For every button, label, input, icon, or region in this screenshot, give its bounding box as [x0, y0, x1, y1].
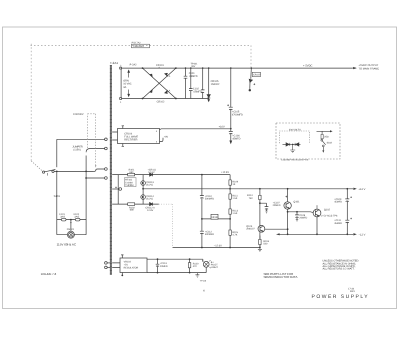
resistor R120	[189, 259, 191, 272]
svg-text:1.5K: 1.5K	[232, 212, 237, 215]
svg-text:RECTIFIER: RECTIFIER	[124, 139, 137, 142]
regulator VR101	[202, 218, 230, 220]
ground tick below fuse row	[70, 222, 72, 224]
pin pad 1	[120, 98, 122, 100]
wire VR102 bus stubs	[112, 263, 120, 268]
svg-text:+12.6V: +12.6V	[221, 171, 229, 174]
drawing frame dashed corner down	[250, 45, 252, 67]
rectifier CR104 box	[112, 126, 159, 147]
capacitor C111	[345, 220, 349, 223]
svg-text:26V: 26V	[191, 65, 196, 68]
svg-text:(115V): (115V)	[73, 149, 80, 152]
svg-text:+8V: +8V	[164, 136, 169, 139]
svg-text:750: 750	[249, 197, 254, 200]
dimension arrow winding	[128, 70, 130, 96]
wire divider column	[229, 175, 231, 248]
zener CR113	[141, 181, 146, 186]
capacitor C113	[156, 264, 160, 266]
inset arrow	[317, 130, 331, 132]
inset contact wire	[283, 143, 301, 145]
svg-text:45MFD: 45MFD	[334, 201, 342, 204]
resistor R109	[229, 180, 231, 185]
svg-text:T-2A1: T-2A1	[110, 61, 118, 65]
svg-text:1.5K: 1.5K	[232, 197, 237, 200]
resistor R102	[128, 203, 135, 206]
svg-text:115/230V SW IN 115V POS: 115/230V SW IN 115V POS	[281, 158, 308, 161]
wire Q103 column	[259, 189, 261, 248]
svg-text:TO MAIN FRAME: TO MAIN FRAME	[359, 67, 380, 70]
wire VR102 output bottom	[147, 272, 206, 274]
svg-text:4700MFD: 4700MFD	[232, 113, 243, 116]
wire T101 primary top	[57, 138, 105, 140]
svg-text:LIGHT: LIGHT	[211, 266, 219, 269]
svg-text:115V 60Hz AC: 115V 60Hz AC	[57, 242, 77, 246]
resistor R118	[259, 239, 261, 244]
inset diode contact a	[286, 143, 289, 146]
wire tap to pin D	[86, 177, 105, 179]
transistor Q103	[258, 225, 265, 232]
wire regulator top rail	[112, 174, 230, 176]
node pin circle C	[105, 168, 108, 171]
resistor R115	[229, 230, 231, 235]
wire regulator bottom rail	[112, 203, 159, 205]
wire Q102 emitter drop	[316, 217, 318, 234]
wire Q103 collector to Q101 drop	[265, 228, 288, 230]
diode CR105	[207, 68, 210, 101]
resistor R114	[259, 195, 261, 199]
inset ground	[290, 144, 295, 152]
wire fuse row	[57, 219, 86, 221]
drawing frame dashed top	[31, 44, 252, 46]
svg-text:−12.6V: −12.6V	[214, 245, 222, 248]
capacitor C109	[345, 199, 349, 202]
svg-text:S102: S102	[327, 141, 333, 144]
fuse F101	[61, 218, 66, 221]
inset selector box dashed	[276, 123, 340, 159]
svg-text:THERM: THERM	[125, 184, 133, 187]
switch S101	[31, 161, 94, 176]
output arrow +12V	[353, 188, 356, 190]
svg-text:45MFD: 45MFD	[232, 138, 240, 141]
wire T101 primary tap	[86, 149, 105, 153]
junction dots divider	[201, 188, 261, 249]
wire bridge bottom rail	[121, 98, 209, 100]
wire output filter column	[346, 189, 348, 235]
diode CR101c on diagonal	[150, 74, 152, 76]
svg-text:25Ω: 25Ω	[324, 136, 329, 139]
node pin circle F	[105, 266, 108, 269]
diode CR101a on diagonal	[165, 73, 168, 76]
capacitor C104	[201, 68, 205, 98]
capacitor C110	[200, 196, 204, 199]
svg-text:−12 V: −12 V	[359, 233, 366, 236]
wire switch to pin	[94, 169, 105, 172]
wire VR102 top stub	[121, 255, 123, 258]
wire Q101 to Q102	[288, 211, 314, 214]
wire +5V top rail	[121, 67, 353, 69]
svg-text:SEMICONDUCTOR DATA: SEMICONDUCTOR DATA	[264, 275, 298, 279]
svg-text:20MFD: 20MFD	[299, 217, 307, 220]
svg-text:A: A	[169, 89, 171, 92]
svg-text:500: 500	[263, 243, 268, 246]
svg-text:.05MFD: .05MFD	[193, 91, 202, 94]
thermistor RT101	[125, 178, 137, 187]
svg-text:2N6107: 2N6107	[246, 227, 255, 230]
svg-text:3AG: 3AG	[74, 216, 79, 219]
svg-text:CHASSIS: CHASSIS	[133, 45, 144, 48]
diode CR111	[150, 173, 153, 176]
svg-text:P-2A2: P-2A2	[130, 63, 138, 66]
svg-text:A: A	[169, 75, 171, 78]
svg-text:REGULATOR: REGULATOR	[124, 266, 139, 269]
inset switch S102	[321, 139, 323, 141]
svg-text:4.7K: 4.7K	[232, 234, 237, 237]
svg-text:5 OHM: 5 OHM	[125, 181, 132, 184]
svg-text:CR107: CR107	[253, 74, 261, 77]
svg-text:(6.2V): (6.2V)	[146, 198, 153, 201]
wire left AC lower vertical	[56, 172, 58, 235]
diode CR101b on diagonal	[165, 91, 168, 94]
svg-text:(+5V ADJ) TP6: (+5V ADJ) TP6	[321, 214, 338, 217]
svg-text:500MFD: 500MFD	[205, 197, 214, 200]
svg-text:3AG: 3AG	[60, 216, 65, 219]
transistor Q101	[284, 189, 291, 209]
node pin circle B	[105, 147, 108, 150]
zener column	[142, 175, 144, 205]
diode CR101d on diagonal	[150, 90, 152, 92]
svg-text:REV: REV	[350, 290, 355, 293]
wire link column	[157, 259, 159, 272]
svg-text:RT101: RT101	[125, 179, 133, 182]
test point tap CR107	[249, 68, 261, 91]
junction dot switch bottom	[56, 171, 58, 173]
capacitor C105	[227, 68, 233, 129]
svg-text:470: 470	[193, 265, 198, 268]
ground below return rail	[258, 248, 262, 252]
wire regulator bottom return rail	[173, 247, 260, 249]
junction dots bridge corners	[142, 67, 177, 99]
lamp DS101	[67, 231, 74, 238]
wire CR104 +16V output	[160, 128, 231, 131]
svg-text:1: 1	[120, 101, 122, 104]
node pin circle A	[105, 138, 108, 141]
svg-text:680: 680	[129, 171, 134, 174]
bridge rectifier CR101 diagonals	[143, 68, 176, 98]
svg-text:Q101: Q101	[293, 201, 300, 204]
node pin circle E	[105, 262, 108, 265]
wire VR102 output top	[147, 258, 203, 260]
node pin circle D	[105, 177, 108, 180]
inset diode contact b	[296, 143, 299, 146]
wire -12V bottom rail	[277, 233, 354, 235]
svg-text:(6.2V): (6.2V)	[146, 184, 153, 187]
svg-text:20MFD: 20MFD	[273, 204, 281, 207]
svg-text:CR101: CR101	[156, 64, 164, 67]
output arrow -12V	[353, 233, 356, 235]
regulator VR102 box	[120, 258, 147, 273]
resistor R111	[229, 194, 231, 199]
svg-text:3A: 3A	[123, 86, 126, 89]
svg-text:FIGURE 7-8: FIGURE 7-8	[41, 272, 57, 276]
wire left AC vertical	[56, 139, 58, 167]
svg-text:500MFD: 500MFD	[205, 233, 214, 236]
filter column C110 C112	[201, 175, 203, 248]
capacitor C107 branch	[260, 203, 267, 211]
svg-text:CR102: CR102	[157, 100, 165, 103]
voltage selector dashed box	[88, 114, 96, 165]
inset arrow down	[322, 147, 324, 151]
wire VR102 bottom stub	[121, 273, 123, 276]
capacitor C102	[189, 68, 193, 98]
junction dots on +5V rail	[185, 67, 252, 129]
zener CR114	[141, 195, 146, 200]
resistor R101	[128, 173, 135, 176]
inset resistor	[321, 134, 323, 138]
svg-text:VR101: VR101	[211, 216, 219, 219]
drawing frame dashed left	[30, 44, 32, 161]
svg-text:+ 5VDC: + 5VDC	[303, 65, 313, 68]
lamp DS102 pilot	[202, 259, 211, 272]
svg-text:230 VOLTS: 230 VOLTS	[289, 128, 301, 131]
resistor R113	[229, 209, 231, 214]
svg-text:1K: 1K	[232, 183, 235, 186]
wire lamp row	[57, 234, 86, 236]
capacitor C106	[229, 129, 233, 144]
transistor Q102	[313, 206, 321, 217]
wire bridge left vertical	[120, 68, 122, 98]
junction dot fuse row	[70, 219, 72, 221]
wire regulator left vertical	[117, 175, 119, 205]
svg-text:Q102: Q102	[324, 208, 331, 211]
connector bus A1	[110, 65, 112, 275]
svg-text:.05MFD: .05MFD	[189, 75, 198, 78]
wire right AC vertical	[85, 156, 87, 235]
wire Q101 emitter drop	[287, 209, 289, 234]
svg-text:20MFD: 20MFD	[160, 265, 168, 268]
ground VR102 output	[195, 273, 199, 278]
test point circle on bus stub	[112, 188, 118, 190]
svg-text:POWER SUPPLY: POWER SUPPLY	[312, 294, 370, 300]
svg-text:+16V: +16V	[219, 125, 225, 128]
inset jumper dashed path	[280, 131, 310, 143]
svg-text:4: 4	[203, 289, 205, 293]
wire +12.6V mid rail	[143, 188, 353, 190]
svg-text:TP110: TP110	[200, 280, 207, 283]
capacitor C112	[200, 231, 204, 234]
capacitor C101	[184, 68, 188, 98]
svg-text:12.6V: 12.6V	[147, 209, 154, 212]
svg-text:115/230V: 115/230V	[73, 113, 84, 116]
fuse F102	[75, 218, 80, 221]
svg-text:12.6V: 12.6V	[148, 171, 155, 174]
svg-text:+12 V: +12 V	[359, 188, 366, 191]
svg-text:45MFD: 45MFD	[334, 222, 342, 225]
svg-text:DS101: DS101	[67, 228, 75, 231]
dotted return path	[159, 204, 173, 247]
capacitor C108 branch	[296, 212, 298, 220]
junction dot tap	[85, 177, 87, 179]
svg-text:ALL RESISTORS 1/2 WATT.: ALL RESISTORS 1/2 WATT.	[323, 268, 355, 271]
pin pad 2	[120, 67, 122, 69]
output arrow +5V	[353, 67, 356, 69]
svg-text:1N4002: 1N4002	[211, 83, 220, 86]
wire lamp drop	[70, 220, 72, 232]
wire CR104 pin3 stub	[160, 138, 164, 142]
svg-text:680: 680	[130, 209, 135, 212]
diode CR112	[150, 203, 153, 206]
